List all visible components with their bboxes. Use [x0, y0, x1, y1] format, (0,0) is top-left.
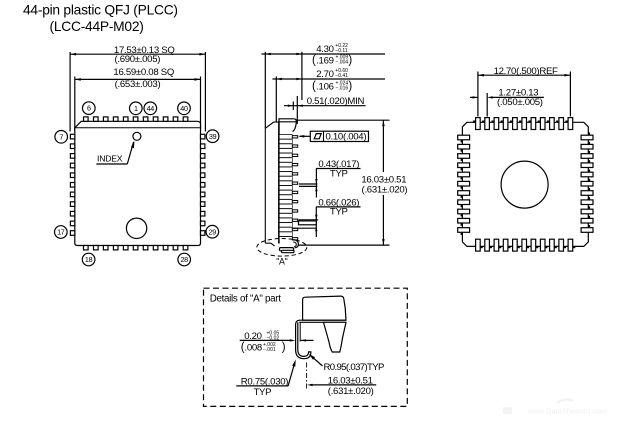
centerline	[306, 363, 308, 391]
package body top view	[75, 121, 201, 245]
svg-text:29: 29	[209, 227, 217, 236]
svg-text:40: 40	[180, 104, 188, 113]
svg-text:18: 18	[85, 255, 93, 264]
J-lead bar 2 (side)	[280, 140, 292, 144]
bottom foot pad bars	[279, 248, 293, 251]
mold mark circle	[126, 218, 146, 238]
pin number 28	[178, 253, 191, 266]
J-lead bar 15 (side)	[280, 200, 292, 204]
bottom view top leads	[473, 121, 475, 123]
svg-text:−0.11: −0.11	[335, 48, 347, 54]
side dim 2.70 ext line	[275, 77, 277, 122]
side view top cap	[279, 119, 296, 122]
svg-text:TYP: TYP	[330, 168, 348, 179]
right pins column	[201, 134, 205, 139]
svg-text:TYP: TYP	[330, 207, 348, 218]
svg-text:−.016: −.016	[336, 86, 349, 92]
left pins column	[70, 134, 74, 139]
side dim 4.30 line	[262, 53, 386, 55]
side view right curve below cap	[293, 122, 297, 132]
svg-text:R0.95(.037)TYP: R0.95(.037)TYP	[324, 362, 384, 373]
left view dim 17.53 line	[70, 53, 205, 55]
svg-text:1: 1	[134, 104, 138, 113]
left view dim 16.59 extension lines	[74, 77, 76, 132]
svg-text:6: 6	[87, 104, 91, 113]
J-lead bar 11 (side)	[280, 181, 292, 185]
svg-text:(.050±.005): (.050±.005)	[497, 97, 543, 108]
pin number 40	[178, 102, 191, 115]
svg-text:7: 7	[59, 132, 63, 141]
bottom view right leads	[588, 133, 590, 135]
pin number 1	[130, 102, 143, 115]
svg-text:(LCC-44P-M02): (LCC-44P-M02)	[50, 19, 144, 34]
detail J-lead	[296, 320, 311, 359]
J-lead bar 16 (side)	[280, 204, 292, 208]
svg-text:44-pin plastic QFJ (PLCC): 44-pin plastic QFJ (PLCC)	[23, 2, 178, 17]
svg-text:4.30: 4.30	[316, 44, 333, 55]
svg-text:.169: .169	[316, 55, 333, 66]
center circle bottom view	[501, 161, 548, 208]
J-lead bar 14 (side)	[280, 195, 292, 199]
svg-text:"A": "A"	[276, 256, 287, 266]
J-lead bar 21 (side)	[280, 228, 292, 232]
J-lead bar 18 (side)	[280, 214, 292, 218]
top bevel band line	[75, 127, 201, 129]
detail shelf lines	[299, 319, 346, 321]
side view left outer edge	[264, 128, 266, 243]
top pins row	[84, 117, 89, 121]
svg-text:.008: .008	[245, 343, 262, 354]
bottom view dim 1.27	[486, 93, 488, 117]
side view chamfer	[265, 122, 274, 128]
bottom view dim 12.70 ext lines	[477, 72, 479, 117]
svg-text:): )	[348, 81, 352, 93]
detail lower body	[324, 322, 347, 352]
J-lead bar 20 (side)	[280, 223, 292, 227]
pin number 39	[206, 130, 219, 143]
pin number 44	[144, 102, 157, 115]
J-lead bar 1 (side)	[280, 135, 292, 139]
svg-text:Details of "A" part: Details of "A" part	[210, 294, 282, 305]
left view dim 16.59 line	[75, 78, 201, 80]
svg-text:12.70(.500)REF: 12.70(.500)REF	[494, 66, 558, 77]
side view lead zone	[278, 134, 292, 240]
svg-text:0.51(.020)MIN: 0.51(.020)MIN	[307, 96, 365, 107]
J-lead bar 19 (side)	[280, 218, 292, 222]
bottom pins row	[84, 246, 89, 250]
package body bottom view	[462, 122, 588, 246]
index arrow	[127, 142, 133, 164]
bottom J-lead hook	[293, 240, 298, 248]
J-lead bar 9 (side)	[280, 172, 292, 176]
dim 0.51 MIN	[284, 105, 366, 107]
J-lead bar 6 (side)	[280, 158, 292, 162]
pin number 6	[83, 102, 96, 115]
svg-text:16.59±0.08 SQ: 16.59±0.08 SQ	[113, 67, 174, 78]
J-lead bar 23 (side)	[280, 237, 292, 241]
svg-text:39: 39	[209, 132, 217, 141]
svg-text:(.690±.005): (.690±.005)	[114, 54, 160, 65]
svg-text:(.631±.020): (.631±.020)	[328, 386, 374, 397]
J-lead bar 22 (side)	[280, 232, 292, 236]
J-lead bar 8 (side)	[280, 167, 292, 171]
detail A dashed ellipse	[257, 239, 307, 257]
bottom view bottom leads	[481, 246, 483, 248]
side view bottom foot	[265, 242, 271, 244]
J-lead bar 3 (side)	[280, 144, 292, 148]
svg-text:INDEX: INDEX	[97, 154, 123, 164]
pin number 18	[82, 253, 95, 266]
J-lead bar 5 (side)	[280, 153, 292, 157]
detail body block	[303, 296, 346, 320]
svg-text:(.631±.020): (.631±.020)	[362, 184, 408, 195]
svg-text:0.10(.004): 0.10(.004)	[326, 131, 367, 142]
index mark circle	[133, 132, 141, 140]
pin number 17	[55, 226, 68, 239]
svg-text:.106: .106	[316, 82, 333, 93]
svg-text:−.001: −.001	[263, 347, 276, 353]
side dim 2.70 line	[273, 78, 386, 80]
J-lead bar 17 (side)	[280, 209, 292, 213]
svg-text:2.70: 2.70	[316, 69, 333, 80]
svg-text:): )	[348, 54, 352, 66]
J-lead bar 13 (side)	[280, 191, 292, 195]
side dim 4.30 ext lines	[264, 52, 266, 129]
details box dashed border	[204, 288, 408, 406]
side view inner body line	[278, 122, 280, 244]
svg-text:TYP: TYP	[254, 387, 272, 398]
J-lead bar 7 (side)	[280, 163, 292, 167]
datum leader arrow	[300, 135, 311, 137]
bottom view dim 12.70 line	[478, 74, 571, 76]
dim 16.03 detail	[310, 384, 376, 386]
svg-text:16.03±0.51: 16.03±0.51	[328, 376, 373, 387]
J-lead bar 4 (side)	[280, 149, 292, 153]
pin number 7	[55, 131, 68, 144]
dim 16.03 vertical	[297, 119, 390, 121]
svg-text:28: 28	[180, 255, 188, 264]
svg-text:): )	[282, 342, 286, 354]
bottom view left leads	[461, 140, 463, 142]
svg-text:(.653±.003): (.653±.003)	[115, 79, 161, 90]
svg-text:17: 17	[57, 228, 65, 237]
J-lead bar 10 (side)	[280, 177, 292, 181]
svg-text:www.DataSheet4U.com: www.DataSheet4U.com	[527, 407, 607, 416]
J-lead bar 12 (side)	[280, 186, 292, 190]
svg-text:44: 44	[147, 104, 155, 113]
svg-text:−.004: −.004	[336, 60, 349, 66]
svg-text:−0.41: −0.41	[335, 73, 348, 79]
datum feature frame	[310, 131, 368, 141]
parallelogram symbol	[314, 134, 321, 139]
left view dim 17.53 extension lines	[69, 52, 71, 132]
pin number 29	[206, 225, 219, 238]
